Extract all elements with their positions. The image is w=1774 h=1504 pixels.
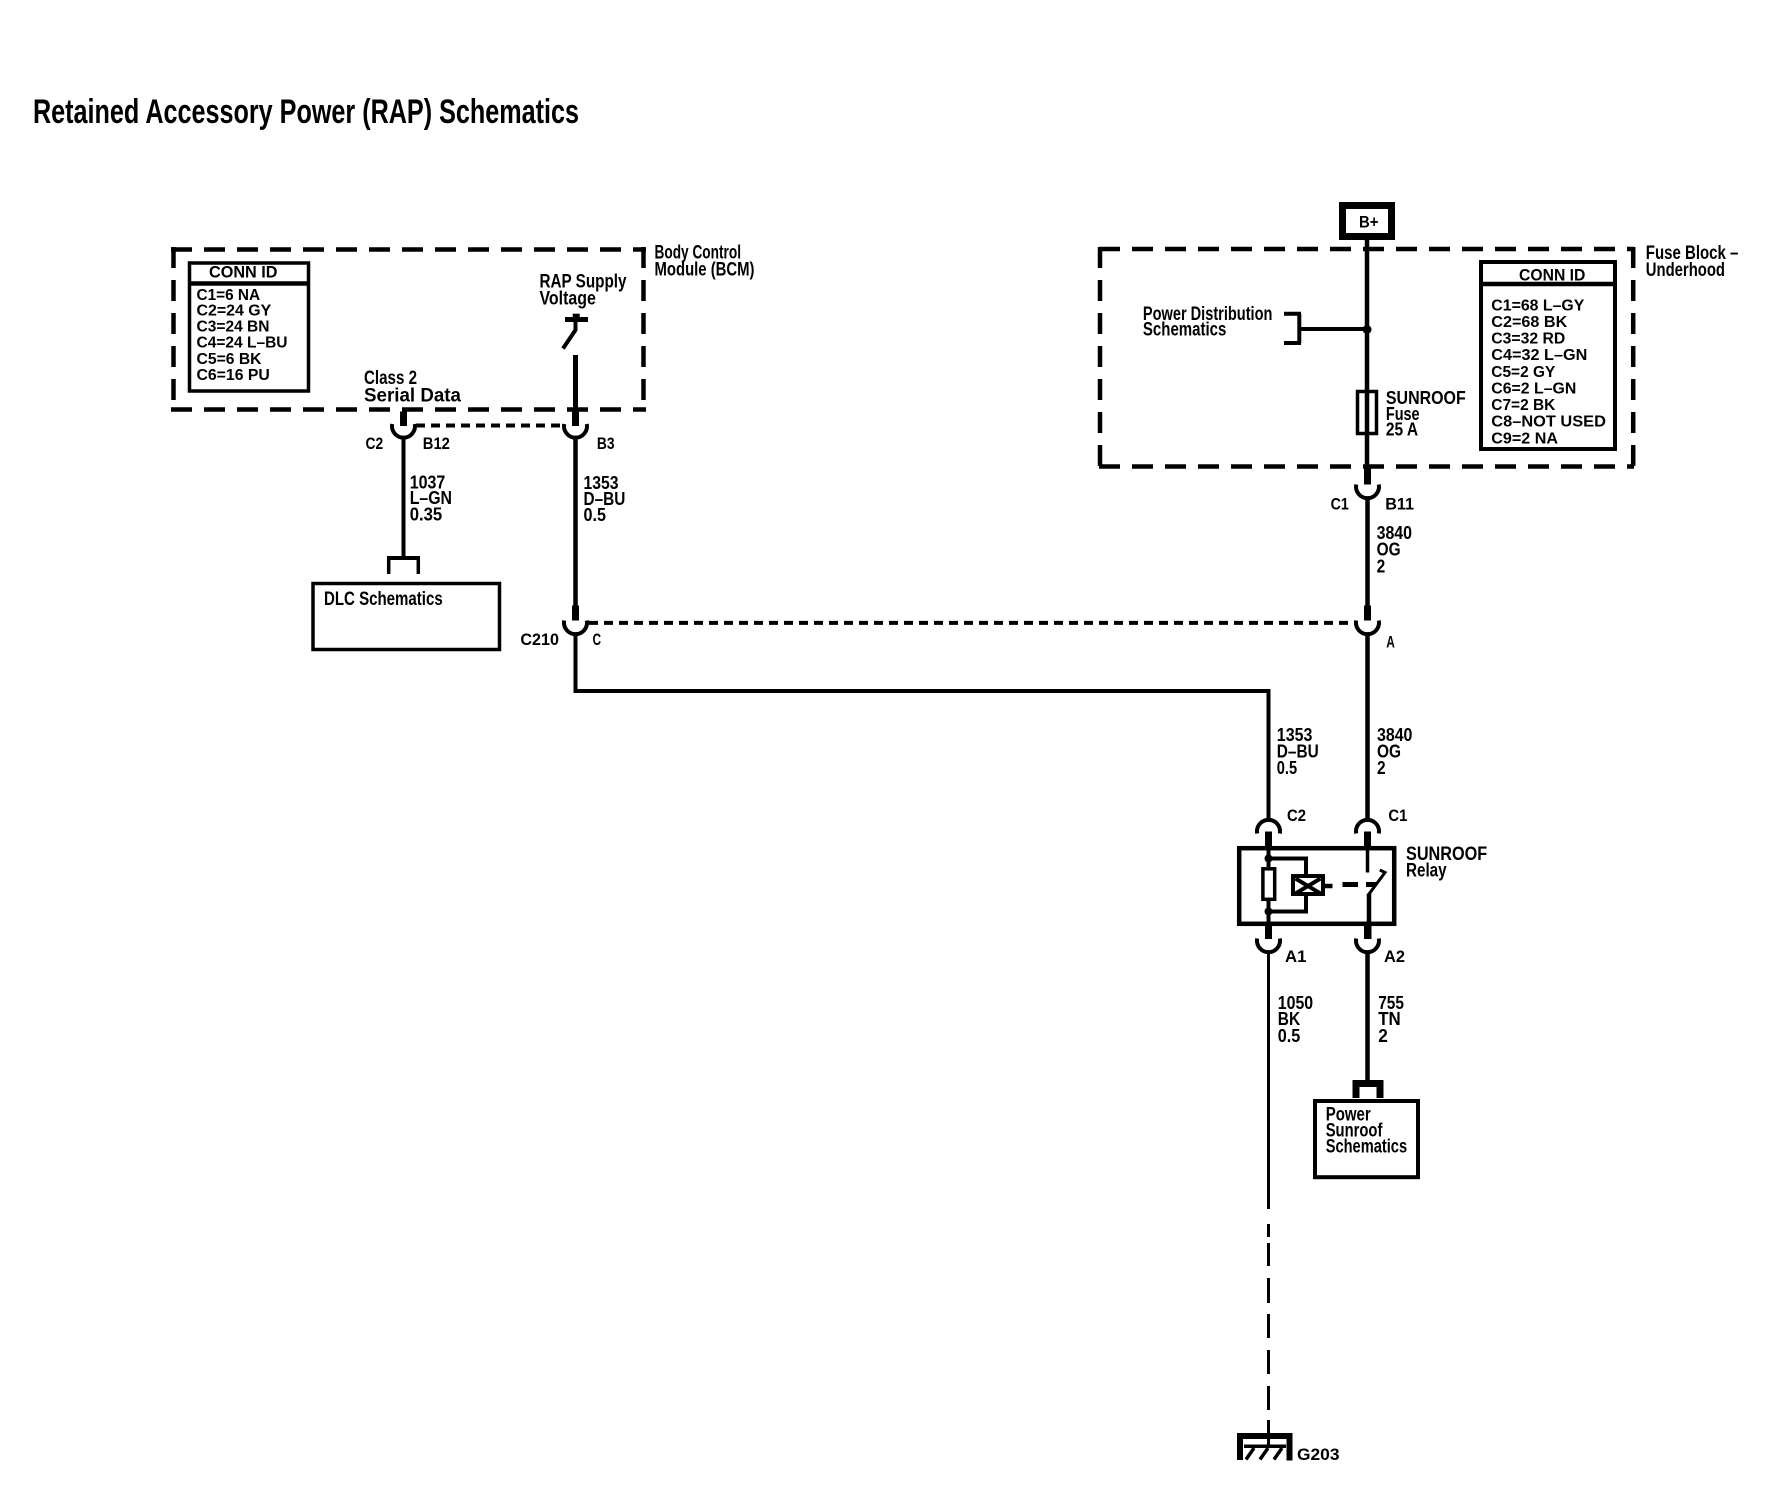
fuse label: [1386, 388, 1466, 440]
ground G203 symbol: [1237, 1433, 1293, 1461]
armature link stub: [1325, 884, 1333, 889]
svg-text:C1: C1: [1331, 495, 1349, 513]
wire 1353 upper: [573, 438, 578, 606]
power distribution tap bracket: [1284, 314, 1367, 343]
svg-text:Schematics: Schematics: [1326, 1136, 1407, 1157]
junction node top: [1265, 855, 1273, 863]
svg-text:B+: B+: [1359, 213, 1379, 232]
coil branch wires: [1269, 859, 1307, 875]
wire RAP switch to B3: [573, 355, 578, 412]
relay coil box: [1293, 876, 1323, 894]
connector C210 arc: [564, 621, 587, 635]
svg-text:25 A: 25 A: [1386, 420, 1418, 440]
wire label 1050 BK 0.5: [1278, 992, 1313, 1046]
svg-text:C210: C210: [520, 631, 559, 649]
relay connector A1 arc: [1257, 939, 1280, 953]
svg-text:C4=32 L–GN: C4=32 L–GN: [1491, 347, 1587, 364]
BCM CONN ID table: [188, 263, 310, 391]
svg-text:C9=2 NA: C9=2 NA: [1491, 430, 1558, 447]
RAP Supply Voltage label: [540, 272, 627, 310]
switch output wire: [1367, 894, 1372, 925]
relay connector A2 stub: [1364, 924, 1372, 940]
sunroof fuse 25A: [1358, 392, 1377, 434]
Power Distribution label: [1143, 304, 1273, 341]
Class 2 Serial Data label: [364, 368, 461, 406]
svg-text:Relay: Relay: [1406, 861, 1447, 882]
switch blade: [1369, 870, 1385, 894]
wire label 3840 OG 2 upper: [1377, 522, 1412, 576]
connector A arc: [1356, 621, 1379, 635]
connector C1/B11 arc: [1356, 485, 1379, 499]
Fuse block CONN ID table: [1479, 262, 1617, 449]
svg-text:C1: C1: [1388, 807, 1407, 825]
wire label 1353 D-BU 0.5 upper: [584, 472, 626, 525]
wire 3840 upper: [1365, 498, 1370, 606]
connector C1/B11 stub: [1364, 467, 1371, 485]
relay label: [1406, 844, 1487, 882]
Body Control Module (BCM) dashed box: [171, 247, 646, 412]
relay connector A1 stub: [1265, 924, 1272, 940]
relay connector C2 stub: [1265, 832, 1272, 849]
svg-text:C8–NOT USED: C8–NOT USED: [1491, 414, 1606, 431]
svg-text:C7=2 BK: C7=2 BK: [1491, 397, 1555, 414]
connector C2/B12 stub: [400, 412, 407, 427]
solid ground lead: [1267, 1420, 1270, 1447]
relay connector C2 arc: [1257, 820, 1280, 834]
wire 755 TN: [1365, 952, 1370, 1080]
dashed ground wire: [1267, 1224, 1270, 1410]
svg-text:C2=24 GY: C2=24 GY: [197, 303, 272, 320]
relay connector C1 arc: [1356, 820, 1379, 834]
RAP supply voltage switch: [563, 314, 588, 349]
svg-text:A2: A2: [1384, 948, 1405, 966]
svg-text:C: C: [593, 631, 602, 649]
wire 1050 BK: [1267, 952, 1270, 1209]
svg-text:C5=2 GY: C5=2 GY: [1491, 364, 1555, 381]
svg-text:C2=68 BK: C2=68 BK: [1491, 314, 1567, 331]
armature link dashes: [1343, 882, 1359, 887]
svg-text:B3: B3: [597, 435, 615, 453]
wire label 755 TN 2: [1378, 992, 1404, 1046]
svg-text:Underhood: Underhood: [1646, 260, 1725, 281]
B+ terminal: [1343, 206, 1392, 237]
svg-text:2: 2: [1378, 1025, 1388, 1046]
svg-text:0.5: 0.5: [1277, 757, 1297, 778]
Fuse Block label: [1646, 243, 1739, 281]
relay coil feed wire: [1267, 846, 1271, 867]
relay connector C1 stub: [1364, 832, 1371, 849]
svg-text:Retained Accessory Power (RAP): Retained Accessory Power (RAP) Schematic…: [33, 93, 579, 131]
BCM label: [655, 242, 755, 280]
switch fixed contact wire: [1366, 850, 1370, 873]
svg-text:0.5: 0.5: [584, 504, 606, 525]
svg-text:C3=32 RD: C3=32 RD: [1491, 331, 1565, 348]
svg-text:C2: C2: [1287, 807, 1306, 825]
svg-text:C4=24 L–BU: C4=24 L–BU: [197, 335, 288, 352]
svg-text:C5=6 BK: C5=6 BK: [197, 351, 262, 368]
Power Sunroof Schematics box: [1315, 1101, 1418, 1177]
DLC connector fork: [387, 558, 420, 574]
dashed wire C210 to A: [589, 621, 1357, 625]
wire label 3840 OG 2 lower: [1377, 724, 1412, 778]
connector B3 stub: [572, 412, 579, 427]
svg-text:C1=6 NA: C1=6 NA: [197, 287, 261, 304]
Fuse Block Underhood dashed box: [1099, 247, 1634, 469]
svg-text:C2: C2: [366, 435, 384, 453]
svg-text:C6=2 L–GN: C6=2 L–GN: [1491, 381, 1576, 398]
wire B+ to fuse block bottom: [1365, 240, 1370, 468]
svg-text:B12: B12: [423, 435, 450, 453]
wire A to relay C1: [1365, 635, 1370, 821]
wire C210 to relay C2 (L-shaped): [576, 635, 1269, 821]
DLC Schematics box: [313, 584, 500, 650]
wire 1037: [402, 438, 406, 557]
svg-text:G203: G203: [1297, 1446, 1340, 1464]
svg-text:B11: B11: [1385, 495, 1414, 513]
wire resistor to bottom node: [1267, 901, 1271, 924]
svg-text:CONN ID: CONN ID: [1519, 265, 1585, 284]
connector B3 arc: [564, 424, 587, 438]
relay resistor: [1263, 869, 1275, 900]
connector C2/B12 arc: [392, 424, 415, 438]
power sunroof connector fork: [1353, 1080, 1384, 1098]
svg-text:Module (BCM): Module (BCM): [655, 259, 755, 280]
svg-text:2: 2: [1377, 757, 1386, 778]
svg-text:C1=68 L–GY: C1=68 L–GY: [1491, 297, 1584, 314]
svg-text:C6=16 PU: C6=16 PU: [197, 367, 270, 384]
svg-text:Voltage: Voltage: [540, 288, 596, 309]
svg-text:0.5: 0.5: [1278, 1025, 1301, 1046]
wire label 1037 L-GN 0.35: [410, 472, 452, 525]
svg-text:0.35: 0.35: [410, 503, 443, 524]
wire label 1353 D-BU 0.5 lower: [1277, 724, 1319, 778]
svg-text:A: A: [1386, 633, 1395, 651]
svg-text:CONN ID: CONN ID: [209, 263, 278, 282]
junction dot: [1363, 325, 1372, 334]
junction node bottom: [1265, 908, 1273, 916]
svg-text:A1: A1: [1285, 948, 1306, 966]
connector C210 stub: [572, 606, 579, 621]
svg-text:Serial Data: Serial Data: [364, 385, 461, 406]
svg-text:DLC Schematics: DLC Schematics: [324, 589, 443, 610]
svg-text:2: 2: [1377, 556, 1386, 577]
svg-text:Schematics: Schematics: [1143, 319, 1227, 340]
connector A stub: [1364, 606, 1371, 621]
SUNROOF relay box: [1239, 848, 1394, 924]
dashed class 2 serial data wire: [416, 424, 563, 428]
relay connector A2 arc: [1356, 939, 1379, 953]
svg-text:C3=24 BN: C3=24 BN: [197, 319, 270, 336]
